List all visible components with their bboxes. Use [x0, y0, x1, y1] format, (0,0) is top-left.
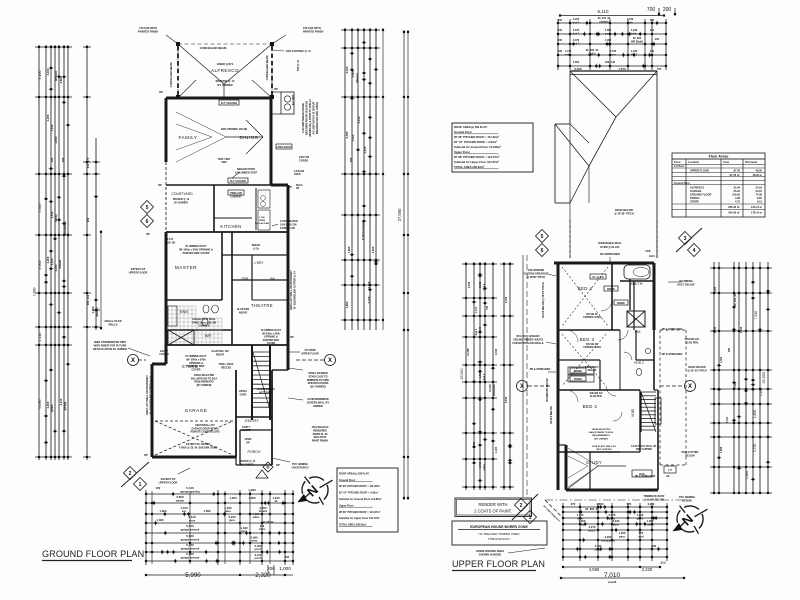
svg-text:FLT CEILING: FLT CEILING: [221, 101, 237, 105]
svg-text:study: study: [594, 548, 602, 552]
svg-text:FOR RETURN AIR GRILLE: FOR RETURN AIR GRILLE: [512, 342, 543, 345]
svg-text:62° 07° PITCHED ROOF = 2.9: 62° 07° PITCHED ROOF = 2.90m²: [339, 491, 378, 495]
svg-text:PORCH: PORCH: [690, 196, 699, 200]
svg-text:90,20.5 BELOW: 90,20.5 BELOW: [550, 405, 553, 423]
svg-text:Floor: Floor: [674, 160, 681, 164]
svg-text:brickwork: brickwork: [63, 221, 67, 234]
svg-text:15,540: 15,540: [460, 369, 464, 380]
svg-text:4: 4: [693, 248, 696, 254]
svg-text:MDF CAPPING: MDF CAPPING: [596, 448, 612, 451]
svg-text:bed 2: bed 2: [573, 43, 580, 46]
svg-text:Location: Location: [688, 160, 700, 164]
svg-text:BATH: BATH: [631, 281, 643, 286]
svg-text:GROUND FLOOR: GROUND FLOOR: [690, 193, 711, 197]
svg-text:2,070: 2,070: [609, 513, 616, 517]
svg-text:1,090: 1,090: [248, 488, 256, 492]
svg-text:1,230: 1,230: [637, 513, 644, 517]
svg-text:230: 230: [650, 50, 655, 53]
svg-text:entry: entry: [251, 540, 258, 543]
svg-text:X: X: [688, 384, 692, 390]
svg-text:LINED @271: LINED @271: [217, 62, 234, 66]
svg-text:KITCHEN: KITCHEN: [220, 224, 241, 229]
svg-text:4.28: 4.28: [735, 196, 741, 200]
svg-text:Ground Floor: Ground Floor: [454, 130, 473, 134]
svg-text:RENDER WITH: RENDER WITH: [479, 502, 508, 507]
svg-text:1,420: 1,420: [734, 381, 737, 388]
svg-text:2P 38° PITCHED ROOF = 111.96: 2P 38° PITCHED ROOF = 111.96m²: [454, 135, 499, 139]
svg-text:200: 200: [50, 157, 54, 162]
svg-text:1: 1: [139, 482, 142, 488]
svg-text:Subtotal for Upper Floor 121: Subtotal for Upper Floor 121.67m²: [339, 516, 380, 520]
svg-text:670: 670: [571, 502, 576, 506]
svg-text:1,550: 1,550: [573, 61, 580, 64]
svg-text:4,420: 4,420: [473, 441, 476, 448]
svg-text:7,520: 7,520: [754, 311, 758, 320]
svg-text:230: 230: [650, 19, 655, 22]
svg-text:DP: DP: [246, 441, 250, 444]
svg-text:DP & SPREADER: DP & SPREADER: [530, 368, 551, 371]
svg-text:DYMO @ NLAFL: DYMO @ NLAFL: [600, 246, 620, 249]
svg-text:DP & SPREADER: DP & SPREADER: [635, 475, 656, 478]
svg-text:theatre: theatre: [259, 510, 268, 513]
svg-text:FIN SIG IN-: FIN SIG IN-: [586, 344, 598, 346]
svg-text:ROOF BELOW @ 29°24° PITCH: ROOF BELOW @ 29°24° PITCH: [542, 282, 545, 317]
svg-text:PDR 2: PDR 2: [634, 361, 644, 365]
svg-text:2,330: 2,330: [495, 348, 498, 355]
svg-text:Subtotal for Ground Floor 114: Subtotal for Ground Floor 114.86m²: [339, 497, 382, 501]
svg-text:DUCT BELOW: DUCT BELOW: [678, 283, 696, 286]
svg-text:S=CLACK BK: S=CLACK BK: [255, 222, 270, 225]
svg-text:bed 4: bed 4: [573, 22, 580, 25]
svg-text:6x6.0: 6x6.0: [649, 256, 655, 258]
svg-text:THROUGHOUT: THROUGHOUT: [488, 537, 510, 541]
svg-text:610_475: 610_475: [86, 157, 90, 168]
svg-text:C'BRDS: C'BRDS: [299, 159, 308, 162]
svg-text:GARAGE: GARAGE: [690, 189, 702, 193]
svg-text:10,240: 10,240: [489, 384, 492, 392]
svg-text:1,890: 1,890: [720, 446, 723, 453]
svg-text:bath: bath: [631, 33, 637, 36]
svg-text:1,090: 1,090: [647, 519, 654, 523]
svg-text:COVER: COVER: [267, 342, 276, 345]
svg-text:EXTENT OF: EXTENT OF: [161, 477, 176, 481]
svg-text:CORNICE OVER: CORNICE OVER: [583, 347, 601, 349]
svg-text:bed 2: bed 2: [483, 373, 486, 380]
svg-text:ROOF AREA(s) ON FLAT:: ROOF AREA(s) ON FLAT:: [339, 471, 370, 475]
svg-text:4.72: 4.72: [735, 200, 741, 204]
svg-text:BED 3: BED 3: [580, 337, 595, 342]
svg-text:UPPER FLOOR: UPPER FLOOR: [159, 481, 178, 485]
svg-text:CAVITY: CAVITY: [160, 350, 169, 353]
svg-text:stairs: stairs: [646, 523, 654, 527]
svg-text:ABOVE: ABOVE: [216, 353, 225, 356]
svg-text:90_302_90: 90_302_90: [734, 293, 737, 306]
svg-text:Floor Areas: Floor Areas: [709, 155, 729, 159]
svg-text:1,390: 1,390: [157, 518, 164, 522]
svg-text:7 P: 7 P: [668, 468, 672, 472]
svg-text:DP: DP: [144, 453, 148, 457]
svg-text:OVERLOOKING AREA: OVERLOOKING AREA: [476, 549, 504, 553]
svg-text:15,550: 15,550: [762, 372, 766, 384]
svg-text:480_410: 480_410: [86, 294, 90, 305]
svg-text:BED 2: BED 2: [583, 404, 598, 409]
svg-text:D: D: [267, 464, 270, 469]
svg-text:2,640: 2,640: [54, 136, 58, 143]
svg-text:9,310 brickwork: 9,310 brickwork: [361, 219, 365, 240]
svg-text:X: X: [328, 358, 332, 364]
svg-text:48.20: 48.20: [756, 169, 763, 173]
svg-text:ENS: ENS: [180, 309, 189, 314]
svg-text:CL @ 2%: CL @ 2%: [592, 275, 604, 279]
svg-text:3,100: 3,100: [46, 68, 50, 75]
svg-text:670: 670: [627, 502, 632, 506]
svg-text:DP: DP: [276, 463, 280, 467]
svg-text:300_148: 300_148: [605, 61, 615, 64]
svg-text:study/pass: study/pass: [601, 539, 616, 543]
svg-text:WR (Bath): WR (Bath): [631, 41, 643, 44]
svg-text:2,200: 2,200: [579, 519, 586, 523]
svg-text:3,170: 3,170: [479, 326, 482, 333]
svg-text:3,100: 3,100: [345, 66, 349, 73]
svg-text:670: 670: [639, 531, 644, 535]
svg-text:W- SQUARELINE GUTTER @ 1½: W- SQUARELINE GUTTER @ 1½: [149, 376, 153, 415]
svg-text:150 SHS WITH: 150 SHS WITH: [139, 26, 157, 30]
svg-text:2P 38° PITCHED ROOF = 111.96: 2P 38° PITCHED ROOF = 111.96m²: [339, 484, 380, 488]
svg-text:alfresco: alfresco: [54, 70, 58, 81]
svg-text:705: 705: [657, 67, 662, 71]
svg-text:@ 2P 38° PITCH: @ 2P 38° PITCH: [614, 212, 634, 216]
svg-text:ROOF AREA(s) ON FLAT:: ROOF AREA(s) ON FLAT:: [454, 125, 487, 129]
svg-text:1,710: 1,710: [577, 513, 584, 517]
svg-text:garage internal: garage internal: [181, 556, 200, 560]
svg-text:300: 300: [660, 561, 666, 565]
svg-text:pass: pass: [613, 524, 620, 527]
svg-text:2P 38° PITCHED ROOF = 121.67: 2P 38° PITCHED ROOF = 121.67m²: [454, 155, 500, 159]
svg-text:A/L: A/L: [666, 475, 670, 478]
svg-text:200: 200: [61, 157, 65, 162]
svg-text:230: 230: [558, 29, 563, 32]
svg-text:DP: DP: [288, 185, 292, 189]
svg-text:MDF CAPPING: MDF CAPPING: [636, 448, 652, 451]
svg-text:& PLUMBED VENT: & PLUMBED VENT: [235, 171, 258, 174]
svg-text:CONC SLAB: CONC SLAB: [280, 227, 295, 230]
svg-text:pass: pass: [605, 43, 611, 46]
svg-text:6,090: 6,090: [38, 400, 42, 409]
svg-text:DUCA: DUCA: [296, 184, 303, 187]
svg-text:1,303: 1,303: [720, 356, 723, 363]
svg-text:3,600: 3,600: [176, 495, 184, 499]
svg-text:2,860: 2,860: [59, 76, 63, 83]
svg-text:FIN SIG IN-: FIN SIG IN-: [586, 314, 598, 316]
svg-text:X: X: [131, 358, 135, 364]
svg-text:2WO OPENING COLNE: 2WO OPENING COLNE: [221, 128, 248, 131]
svg-text:REQUIREMENTS: REQUIREMENTS: [592, 435, 610, 437]
svg-text:pass: pass: [229, 519, 235, 522]
svg-text:porch: porch: [255, 557, 262, 560]
svg-text:PDR: PDR: [242, 277, 249, 281]
svg-text:ROBE: ROBE: [574, 369, 582, 373]
svg-text:1,000: 1,000: [279, 566, 291, 571]
svg-text:24sR_SD: 24sR_SD: [165, 241, 176, 244]
svg-text:SLAB PEN.: SLAB PEN.: [590, 395, 603, 398]
svg-text:bed 3: bed 3: [573, 33, 580, 36]
svg-text:ROBE: ROBE: [617, 301, 625, 305]
svg-text:7,010: 7,010: [604, 572, 621, 579]
svg-text:3,130: 3,130: [357, 116, 361, 123]
svg-text:CONCEALED BEAM: CONCEALED BEAM: [200, 46, 227, 50]
svg-text:garage: garage: [63, 401, 67, 410]
svg-text:1,112: 1,112: [475, 306, 478, 313]
svg-text:WR 2: WR 2: [631, 54, 638, 57]
svg-text:EUROPEAN HOUSE BORER ZONE: EUROPEAN HOUSE BORER ZONE: [470, 525, 528, 529]
svg-text:2,190: 2,190: [740, 326, 743, 333]
svg-text:SLAB PEN.: SLAB PEN.: [685, 341, 699, 344]
svg-text:WIL: WIL: [635, 330, 641, 334]
svg-text:2,180: 2,180: [505, 296, 508, 303]
svg-text:STUDY: STUDY: [586, 460, 602, 465]
svg-text:CLOSER: CLOSER: [241, 430, 251, 432]
svg-text:eco: eco: [182, 510, 187, 513]
svg-text:3,500: 3,500: [351, 70, 355, 77]
svg-text:@ 2P38° PITCH: @ 2P38° PITCH: [527, 276, 545, 279]
svg-text:7,860: 7,860: [347, 246, 351, 253]
svg-text:2,180: 2,180: [759, 388, 763, 396]
svg-text:90_800_90: 90_800_90: [585, 507, 599, 511]
svg-text:GARAGE: GARAGE: [185, 408, 208, 413]
svg-text:9.13: 9.13: [757, 200, 763, 204]
svg-text:STORE: STORE: [690, 200, 699, 204]
svg-text:DP &SPREADER: DP &SPREADER: [600, 253, 620, 256]
svg-text:178.41 m: 178.41 m: [751, 211, 763, 215]
svg-text:139.92: 139.92: [732, 193, 740, 197]
svg-text:1,092: 1,092: [204, 509, 211, 513]
svg-text:3,110: 3,110: [726, 416, 729, 423]
svg-text:(BY OWNER): (BY OWNER): [594, 438, 608, 440]
svg-text:WITH RISER FOR FUTURE: WITH RISER FOR FUTURE: [94, 344, 127, 348]
svg-text:2: 2: [129, 471, 132, 477]
svg-text:family: family: [54, 214, 58, 222]
svg-text:Upper Floor: Upper Floor: [339, 503, 353, 507]
svg-text:EXTENT OF: EXTENT OF: [131, 267, 146, 271]
svg-text:230: 230: [558, 39, 563, 42]
svg-text:DP & SPREADER: DP & SPREADER: [662, 328, 683, 331]
svg-text:6,230: 6,230: [714, 326, 717, 333]
svg-text:@ 29° 39° PITCH: @ 29° 39° PITCH: [687, 369, 707, 372]
svg-text:1,660: 1,660: [745, 471, 749, 479]
svg-text:TRAF VENT: TRAF VENT: [218, 158, 231, 161]
svg-text:3,310: 3,310: [479, 281, 482, 288]
svg-text:1,000: 1,000: [259, 217, 265, 219]
svg-text:4,260: 4,260: [605, 535, 612, 539]
svg-text:W&B STORMWATER PIPE: W&B STORMWATER PIPE: [94, 340, 126, 344]
svg-text:5: 5: [146, 205, 149, 211]
svg-text:ENTRY: ENTRY: [245, 418, 259, 423]
svg-text:CONCEALED BEAM: CONCEALED BEAM: [169, 63, 173, 88]
svg-text:7,990: 7,990: [33, 288, 37, 297]
svg-text:3,102: 3,102: [351, 134, 355, 141]
svg-text:304.09 m²: 304.09 m²: [728, 211, 740, 215]
svg-text:22.94: 22.94: [734, 185, 741, 189]
svg-text:13,380: 13,380: [467, 348, 470, 356]
svg-text:PRELAID: PRELAID: [230, 191, 242, 195]
svg-text:UPPER FLOOR: UPPER FLOOR: [129, 271, 148, 275]
svg-text:HP: HP: [296, 188, 300, 190]
svg-text:WIL: WIL: [270, 277, 276, 281]
svg-text:206.33 m²: 206.33 m²: [728, 205, 740, 209]
svg-text:BY OWNER: BY OWNER: [240, 463, 253, 466]
svg-text:RETICULATION BY OWNER: RETICULATION BY OWNER: [93, 347, 127, 351]
svg-text:LINK BACK: LINK BACK: [277, 145, 292, 149]
svg-text:PAINTED FINISH: PAINTED FINISH: [303, 30, 324, 34]
svg-text:TOTAL AREA 236.63: TOTAL AREA 236.63m²: [339, 523, 367, 527]
svg-text:5,410: 5,410: [186, 486, 194, 490]
svg-text:4,200: 4,200: [46, 256, 50, 263]
svg-text:CONCEALED BEAM: CONCEALED BEAM: [265, 56, 269, 81]
svg-text:MASTER: MASTER: [175, 265, 197, 270]
svg-text:pass: pass: [619, 536, 626, 539]
svg-text:PEAK DUCT: PEAK DUCT: [585, 366, 599, 369]
svg-text:@ 2k: @ 2k: [253, 247, 259, 250]
svg-text:930: 930: [86, 217, 90, 222]
svg-text:6: 6: [541, 248, 544, 254]
svg-text:748: 748: [486, 305, 489, 310]
svg-text:(BY OWNER): (BY OWNER): [310, 386, 326, 389]
svg-text:1,710: 1,710: [479, 461, 482, 468]
svg-text:ALFRESCO: ALFRESCO: [211, 68, 239, 73]
svg-text:150 SHS WITH: 150 SHS WITH: [303, 26, 321, 30]
svg-text:8.87: 8.87: [757, 196, 763, 200]
svg-text:WALLS: WALLS: [108, 323, 117, 327]
svg-text:robes: robes: [483, 463, 486, 470]
svg-text:UPPER FLOOR PLAN: UPPER FLOOR PLAN: [452, 559, 545, 569]
svg-text:laundry: laundry: [95, 307, 99, 317]
svg-text:5,300: 5,300: [345, 131, 349, 138]
svg-text:GROUND FLOOR PLAN: GROUND FLOOR PLAN: [42, 549, 144, 559]
svg-text:6,210: 6,210: [367, 281, 371, 288]
svg-text:2,220: 2,220: [648, 502, 655, 506]
svg-text:1,000: 1,000: [230, 496, 237, 500]
svg-text:bed 3: bed 3: [475, 328, 478, 335]
svg-text:(Bath): (Bath): [588, 53, 595, 56]
svg-text:Subtotal for Upper Floor 121: Subtotal for Upper Floor 121.67m²: [454, 160, 499, 164]
svg-text:440x400 A/C: 440x400 A/C: [589, 392, 603, 395]
svg-text:garage internal: garage internal: [181, 538, 200, 542]
svg-text:bath: bath: [627, 22, 633, 25]
svg-text:90 340 90: 90 340 90: [263, 521, 274, 524]
svg-text:2P 38° PITCHED ROOF = 121.67: 2P 38° PITCHED ROOF = 121.67m²: [339, 510, 381, 514]
svg-text:1,210: 1,210: [91, 306, 95, 313]
svg-text:DP: DP: [158, 183, 162, 187]
svg-text:6,210: 6,210: [59, 398, 63, 405]
svg-text:T-BAR @ ZIL W- SOKORK OVER: T-BAR @ ZIL W- SOKORK OVER: [179, 446, 218, 449]
svg-text:ALFRESCO: ALFRESCO: [690, 185, 704, 189]
svg-text:2,730: 2,730: [753, 444, 757, 452]
svg-text:5,820: 5,820: [186, 552, 194, 556]
svg-text:200: 200: [663, 7, 672, 13]
svg-text:2,730: 2,730: [367, 296, 371, 303]
svg-text:BELOW: BELOW: [588, 370, 597, 372]
svg-text:3: 3: [684, 236, 687, 242]
svg-text:ROOF BELOW: ROOF BELOW: [615, 208, 633, 212]
svg-text:stairs: stairs: [253, 516, 260, 519]
svg-text:robe: robe: [565, 54, 571, 57]
svg-text:5,710: 5,710: [186, 524, 194, 528]
svg-text:12UA PLAST. WALL W/-: 12UA PLAST. WALL W/-: [592, 445, 617, 448]
svg-text:2,220: 2,220: [642, 567, 653, 572]
svg-text:Ground floor: Ground floor: [674, 181, 690, 185]
svg-text:2: 2: [520, 503, 523, 509]
svg-text:24.15: 24.15: [756, 189, 763, 193]
svg-text:2,040 GM: 2,040 GM: [294, 170, 304, 173]
svg-text:DP & SPREADER: DP & SPREADER: [662, 353, 683, 356]
svg-text:97.78: 97.78: [734, 169, 741, 173]
svg-text:garage opening: garage opening: [180, 490, 200, 494]
svg-text:RECESS: RECESS: [221, 366, 231, 369]
svg-text:X: X: [520, 384, 524, 390]
svg-text:1,600: 1,600: [753, 410, 757, 418]
svg-text:485: 485: [728, 347, 731, 352]
svg-text:4,200: 4,200: [46, 401, 50, 408]
svg-text:3,140: 3,140: [188, 515, 196, 519]
svg-text:ROBE: ROBE: [574, 377, 582, 381]
svg-text:6: 6: [146, 219, 149, 225]
svg-text:DINING: DINING: [239, 135, 258, 140]
svg-text:BY OWNER: BY OWNER: [174, 202, 188, 205]
svg-text:1,110: 1,110: [38, 333, 42, 342]
svg-text:Area: Area: [723, 160, 729, 164]
svg-text:brickwork: brickwork: [493, 383, 496, 395]
svg-text:48.20 m: 48.20 m: [752, 173, 762, 177]
svg-text:REMOTE CONTROLLERS: REMOTE CONTROLLERS: [190, 431, 219, 434]
svg-text:5,240: 5,240: [505, 396, 508, 403]
svg-text:1,545: 1,545: [50, 124, 54, 131]
svg-text:ABOVE: ABOVE: [239, 311, 248, 314]
svg-text:CORNICE OVER: CORNICE OVER: [583, 317, 601, 319]
svg-text:OWNER: OWNER: [313, 405, 323, 408]
svg-text:DP: DP: [274, 87, 278, 91]
svg-text:METERBOX: METERBOX: [259, 391, 273, 394]
svg-text:PORCH: PORCH: [248, 450, 261, 454]
svg-text:garage internal: garage internal: [181, 528, 200, 532]
svg-text:2,650: 2,650: [597, 502, 604, 506]
svg-text:SHOWN SHADED: SHOWN SHADED: [479, 553, 501, 557]
svg-text:230: 230: [655, 38, 660, 41]
svg-text:200mm TILED: 200mm TILED: [104, 319, 121, 323]
svg-text:5,990: 5,990: [185, 572, 201, 579]
svg-text:COURTYARD: COURTYARD: [171, 192, 193, 196]
svg-text:grano: grano: [50, 404, 54, 412]
svg-text:5,300: 5,300: [38, 204, 42, 213]
svg-text:porch: porch: [255, 548, 262, 551]
svg-text:OPEN: OPEN: [259, 220, 266, 222]
svg-text:number: number: [599, 21, 608, 24]
svg-text:2,273: 2,273: [589, 525, 596, 529]
svg-text:200: 200: [349, 157, 353, 162]
svg-text:(BY OWNER): (BY OWNER): [197, 384, 212, 387]
svg-text:1,570: 1,570: [618, 67, 626, 71]
svg-text:pass: pass: [225, 510, 231, 513]
svg-text:PAD FOOTING @ -N: PAD FOOTING @ -N: [286, 49, 311, 53]
svg-text:A/C UNIT: A/C UNIT: [292, 94, 295, 105]
svg-text:CORNICE: CORNICE: [198, 325, 209, 328]
svg-text:1,310: 1,310: [479, 371, 482, 378]
svg-text:1,320: 1,320: [619, 531, 626, 535]
svg-text:4,590: 4,590: [589, 567, 600, 572]
svg-text:PAINTED WDF COVER: PAINTED WDF COVER: [183, 252, 210, 255]
svg-text:4,130: 4,130: [595, 544, 602, 548]
svg-text:BOUNDARY BELOW: BOUNDARY BELOW: [546, 378, 549, 402]
svg-text:Perimeter: Perimeter: [745, 160, 757, 164]
